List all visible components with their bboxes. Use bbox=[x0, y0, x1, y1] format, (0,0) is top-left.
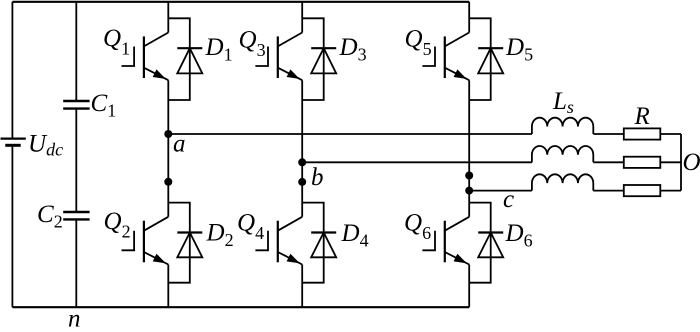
wire diode branch bbox=[168, 203, 190, 283]
wire leg 3 top lead bbox=[468, 2, 470, 33]
wire diode branch bbox=[168, 18, 190, 100]
wire capacitor branch bottom bbox=[75, 219, 77, 307]
wire phase a line bbox=[168, 133, 532, 135]
inductor phase c bbox=[532, 174, 593, 190]
inductor phase b bbox=[532, 146, 593, 162]
diode D2 bbox=[177, 233, 202, 258]
wire neutral vertical (node O) bbox=[680, 134, 682, 191]
svg-text:R: R bbox=[634, 103, 650, 130]
transistor Q5 bbox=[422, 33, 469, 81]
wire phase c line bbox=[469, 190, 532, 192]
wire left source branch upper bbox=[11, 2, 13, 139]
junction leg 1 midpoint bbox=[164, 178, 172, 186]
wire left source branch lower bbox=[11, 145, 13, 307]
capacitor C2 bbox=[63, 212, 89, 219]
wire leg 1 middle bbox=[167, 80, 169, 217]
svg-text:O: O bbox=[683, 149, 700, 176]
junction leg 3 midpoint bbox=[465, 172, 473, 180]
svg-text:a: a bbox=[173, 131, 186, 158]
wire capacitor branch top bbox=[75, 2, 77, 101]
wire c resistor to node O bbox=[660, 190, 681, 192]
transistor Q4 bbox=[255, 217, 302, 265]
wire b inductor to resistor bbox=[593, 161, 624, 163]
wire leg 2 top lead bbox=[301, 2, 303, 33]
svg-text:b: b bbox=[311, 164, 324, 191]
diode D1 bbox=[177, 48, 202, 73]
wire diode branch bbox=[469, 203, 491, 283]
wire leg 2 bottom lead bbox=[301, 265, 303, 308]
transistor Q2 bbox=[122, 217, 169, 265]
wire phase b line bbox=[302, 161, 532, 163]
diode D4 bbox=[311, 233, 336, 258]
wire leg 3 middle bbox=[468, 80, 470, 217]
wire diode branch bbox=[302, 203, 324, 283]
resistor R phase a bbox=[624, 128, 661, 139]
node b bbox=[298, 158, 306, 166]
junction leg 2 midpoint bbox=[298, 178, 306, 186]
capacitor C1 bbox=[63, 101, 89, 109]
transistor Q6 bbox=[422, 217, 469, 265]
diode D5 bbox=[478, 48, 503, 73]
wire a inductor to resistor bbox=[593, 133, 624, 135]
wire b resistor to node O bbox=[660, 161, 681, 163]
wire a resistor to node O bbox=[660, 133, 681, 135]
node a bbox=[164, 130, 172, 138]
diode D6 bbox=[478, 233, 503, 258]
resistor R phase b bbox=[624, 157, 661, 168]
diode D3 bbox=[311, 48, 336, 73]
battery Udc bbox=[1, 139, 26, 146]
wire c inductor to resistor bbox=[593, 190, 624, 192]
wire top DC rail bbox=[12, 1, 469, 3]
wire diode branch bbox=[469, 18, 491, 100]
resistor R phase c bbox=[624, 185, 661, 196]
node c bbox=[465, 187, 473, 195]
wire diode branch bbox=[302, 18, 324, 100]
wire leg 1 top lead bbox=[167, 2, 169, 33]
svg-text:c: c bbox=[503, 186, 514, 213]
wire bottom DC rail (net n) bbox=[12, 306, 469, 308]
transistor Q1 bbox=[122, 33, 169, 81]
transistor Q3 bbox=[255, 33, 302, 81]
wire leg 1 bottom lead bbox=[167, 265, 169, 308]
wire leg 2 middle bbox=[301, 80, 303, 217]
wire leg 3 bottom lead bbox=[468, 265, 470, 308]
wire capacitor branch middle bbox=[75, 109, 77, 212]
svg-text:n: n bbox=[68, 306, 81, 332]
inductor Ls phase a bbox=[532, 118, 593, 134]
